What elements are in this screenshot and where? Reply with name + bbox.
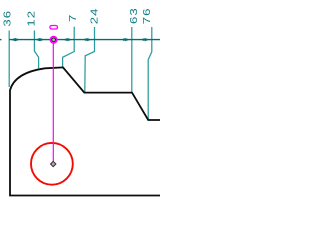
svg-text:76: 76: [141, 8, 152, 25]
circle center marker (gray diamond): [51, 161, 56, 166]
arrow at x=9 (points left): [11, 38, 18, 42]
arrow at x=94 (points right): [85, 38, 92, 42]
svg-text:24: 24: [89, 8, 100, 25]
part outline: [10, 67, 160, 195]
svg-text:7: 7: [67, 14, 78, 22]
arrow at x=34 (points left): [35, 38, 42, 42]
dimension line: [9, 39, 160, 41]
svg-text:12: 12: [26, 10, 37, 27]
magenta ordinate leader line: [52, 44, 54, 162]
extension line x=9 (dim 36): [8, 31, 10, 88]
arrow at x=151 (points right): [143, 38, 150, 42]
arrow at x=74 (points right): [65, 38, 72, 42]
extension line x=131 (dim 63): [131, 27, 133, 92]
node marker at 0 datum (magenta ring, dark core, gray dot): [50, 37, 57, 44]
extension line x=74 with jog (dim 7): [63, 27, 75, 68]
extension line x=34 with jog (dim 12): [34, 31, 38, 69]
red circle (hole): [31, 143, 73, 185]
extension line x=151 with jog (dim 76): [148, 27, 152, 120]
svg-text:36: 36: [2, 10, 13, 27]
svg-text:63: 63: [128, 7, 139, 24]
label 0 (magenta): [50, 26, 58, 30]
arrow at x=131 (points right): [123, 38, 130, 42]
dimension line stub at left edge: [0, 39, 2, 41]
extension line x=94 with jog (dim 24): [85, 27, 95, 93]
